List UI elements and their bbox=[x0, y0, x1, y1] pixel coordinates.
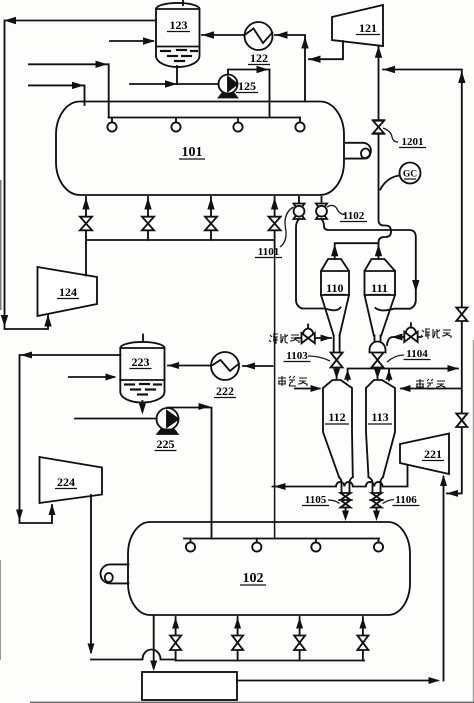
label underlines bbox=[55, 32, 444, 586]
cyclone 111 dipleg with crossover hump and valve 1104 bbox=[375, 336, 381, 342]
tank 223 bbox=[120, 342, 164, 403]
text labels bbox=[182, 145, 264, 586]
arrow: line C corner bbox=[96, 61, 108, 68]
pump 125 bbox=[219, 75, 238, 94]
wire: feed line C into vessel 101 top bbox=[29, 64, 109, 117]
tank 123 top stub bbox=[182, 1, 184, 6]
wire: transport gas line into 112 bbox=[295, 388, 320, 390]
leader 1106 bbox=[383, 500, 395, 504]
wire: exchanger 222 to tank 223 bbox=[168, 365, 211, 367]
jing-hua-qi left bbox=[269, 334, 299, 344]
arrow: right line into riser junction bbox=[447, 490, 459, 497]
wire: compressor 224 discharge down to bottom header bbox=[90, 495, 92, 652]
arrow: drain valve 2 up into 101 bbox=[144, 198, 151, 210]
svg-text:113: 113 bbox=[371, 410, 388, 424]
arrow: below valve 1106 into 102 bbox=[373, 511, 380, 522]
analyzer GC circle bbox=[400, 163, 421, 184]
vessel 101 bbox=[56, 102, 344, 196]
vessel 113 bbox=[366, 380, 395, 477]
arrow: below valve 1103 into 112 bbox=[333, 369, 340, 380]
svg-text:112: 112 bbox=[328, 410, 345, 424]
wire: riser from vessel 101 top to exchanger 122 bbox=[275, 35, 305, 102]
compressor 224 bbox=[40, 457, 103, 503]
arrow: 102 drain into box bbox=[150, 661, 157, 672]
arrow: into 122 right side bbox=[276, 31, 288, 38]
turbine 121 bbox=[332, 5, 383, 46]
arrow: box line into riser bbox=[429, 677, 441, 684]
arrow: top line pointing left bbox=[4, 17, 16, 24]
svg-text:1103: 1103 bbox=[286, 350, 308, 362]
svg-text:1101: 1101 bbox=[258, 246, 279, 258]
wire: right-side line from turbine feed down to compressor 221 junction bbox=[383, 70, 462, 494]
vessel 102 spray nozzle 3 bbox=[315, 539, 317, 543]
wire: feed arrow into tank 123 left bbox=[110, 40, 153, 42]
arrow: 224 discharge down bbox=[88, 644, 95, 655]
wire: solids return header under 112/113 into compressor 221 bbox=[273, 466, 408, 487]
cyclone 111 bbox=[365, 259, 396, 295]
vessel 102 left side nozzle bbox=[101, 564, 129, 583]
svg-text:101: 101 bbox=[182, 145, 203, 160]
vessel 102 bottom valve 3 bbox=[299, 617, 301, 661]
chinese labels (hand-drawn glyphs) bbox=[269, 329, 451, 389]
arrow: 223 top loop pointing left bbox=[21, 352, 33, 359]
vessel 101 spray nozzle 3 bbox=[237, 118, 239, 123]
vessel 101 right side nozzle bbox=[346, 143, 371, 159]
vessel 101 spray nozzle 2 bbox=[175, 118, 177, 123]
tank 223 outlet pipe bbox=[141, 401, 143, 411]
valve 1105 (double bowtie) bbox=[341, 493, 351, 500]
valve 1103 bbox=[331, 353, 343, 368]
vessel 101 spray nozzle 1 bbox=[111, 118, 113, 123]
arrow: riser top pointing up bbox=[301, 37, 308, 49]
arrow: 1102 line down at right bbox=[412, 280, 419, 292]
arrow: 112 gas riser up bbox=[344, 369, 351, 380]
vessel 112 bbox=[323, 380, 353, 477]
heat exchanger 222 bbox=[211, 352, 239, 380]
arrow: 102 bottom valve 4 up bbox=[359, 618, 366, 629]
pump 225 bbox=[157, 408, 179, 430]
valve 1106 (double bowtie) bbox=[372, 493, 382, 500]
heat exchanger 122 bbox=[245, 22, 273, 50]
wire: transport gas line into 113 bbox=[401, 388, 461, 390]
svg-text:1105: 1105 bbox=[305, 494, 327, 506]
wire: pump 125 suction line bbox=[130, 83, 219, 85]
svg-text:222: 222 bbox=[216, 384, 234, 398]
leader 1105 bbox=[328, 500, 340, 504]
arrow: up into compressor 224 bbox=[49, 504, 56, 516]
arrow: into 223 left inlet bbox=[106, 374, 117, 381]
arrow: cyclone 111 riser up bbox=[375, 244, 382, 256]
cyclone 110 bbox=[321, 259, 349, 295]
wire: exchanger 122 outlet into tank 123 bbox=[202, 34, 245, 36]
tank 123 bbox=[156, 3, 200, 67]
vessel 102 spray nozzle 2 bbox=[256, 539, 258, 543]
svg-text:224: 224 bbox=[57, 475, 75, 489]
arrow: 113 gas riser up bbox=[386, 369, 393, 380]
arrow: 102 bottom valve 3 up bbox=[296, 618, 303, 629]
arrow: cyclone 110 riser up bbox=[331, 244, 338, 256]
svg-text:124: 124 bbox=[59, 285, 77, 299]
vessel 101 spray nozzle 4 bbox=[299, 118, 301, 123]
vessel 101 bottom drain valve 4 (on long downcomer) bbox=[274, 197, 276, 240]
shu-song-qi left bbox=[278, 376, 307, 386]
arrow: purge gas right into dipleg bbox=[392, 334, 403, 341]
shu-song-qi right bbox=[416, 379, 445, 389]
compressor 124 bbox=[38, 267, 98, 316]
arrow: below valve 1105 into 102 bbox=[342, 511, 349, 522]
svg-text:1104: 1104 bbox=[406, 348, 428, 360]
arrow: gas header into right line bbox=[448, 365, 460, 372]
arrow: drain valve 4 up into 101 bbox=[271, 198, 278, 210]
svg-text:223: 223 bbox=[132, 355, 150, 369]
arrow: into 223 from 222 bbox=[168, 362, 180, 369]
valve 1104 bbox=[372, 353, 384, 368]
leader 1103 bbox=[308, 356, 330, 361]
svg-text:125: 125 bbox=[238, 79, 256, 93]
wire: bottom blowdown header under vessel 102 bbox=[176, 660, 364, 662]
wire: cyclone outlet header with risers bbox=[335, 243, 379, 259]
arrow: turbine feed up into 121 bbox=[375, 46, 382, 58]
svg-text:102: 102 bbox=[243, 571, 264, 586]
arrow: into 123 left bbox=[143, 37, 155, 44]
scan edge artifacts bbox=[1, 180, 474, 702]
wire: tank 223 inlet line bbox=[69, 376, 114, 378]
vessel 101 bottom drain valve 3 bbox=[210, 197, 212, 240]
bottom box bbox=[142, 672, 237, 700]
wire: turbine 121 exhaust to riser bbox=[309, 41, 343, 59]
vessel 102 internal spray header bbox=[184, 538, 379, 540]
leader curves bbox=[280, 128, 404, 504]
tank 123 liquid dashes bbox=[161, 50, 197, 61]
svg-text:110: 110 bbox=[326, 281, 343, 295]
arrow: right line up bbox=[458, 71, 465, 83]
arrow: 102 bottom valve 2 up bbox=[234, 618, 241, 629]
vessel 101 bottom drain valve 1 bbox=[85, 197, 87, 240]
vessel 113 outlet pipe (double line) bbox=[369, 477, 384, 493]
wire: left ball valve line feeding cyclone 110 bbox=[296, 219, 341, 310]
vessel 102 bbox=[128, 522, 410, 615]
compressor 221 bbox=[400, 434, 449, 475]
arrow: into 222 from right bbox=[244, 363, 256, 370]
wire: right ball valve line to cyclone 111 (over the top, down right side) bbox=[322, 219, 416, 310]
arrow: drain valve 3 up into 101 bbox=[207, 198, 214, 210]
vessel 102 spray nozzle 1 bbox=[190, 539, 192, 543]
vessel 102 drain to bottom box bbox=[153, 616, 155, 669]
arrow: up into compressor 124 bbox=[44, 315, 51, 327]
wire: pump 225 discharge into vessel 102 bbox=[168, 408, 212, 539]
svg-text:121: 121 bbox=[359, 21, 377, 35]
arrow: 223 loop down bbox=[16, 510, 23, 522]
arrow: drain valve 1 up into 101 bbox=[82, 198, 89, 210]
arrow: riser up into 221 bbox=[440, 475, 447, 487]
cyclone 110 dipleg to valve 1103 bbox=[334, 336, 340, 353]
wire: bottom box to riser into compressor 221 bbox=[237, 477, 444, 681]
wire: turbine 121 feed line with crossover jog bbox=[378, 46, 380, 121]
wire: drain header under vessel 101, drop into compressor 124 bbox=[86, 240, 275, 276]
wire: top line from tank 123 to far left, down left edge into compressor 124 bbox=[5, 21, 157, 330]
svg-text:225: 225 bbox=[157, 437, 175, 451]
arrow: transport gas into 112 bbox=[311, 385, 322, 392]
arrow: pump 125 discharge corner bbox=[257, 66, 269, 73]
wire: gas header from vessels 112/113 to right line bbox=[348, 369, 458, 381]
vessel 102 spray nozzle 4 bbox=[378, 539, 380, 543]
arrow: pump 125 suction bbox=[165, 80, 177, 87]
svg-text:221: 221 bbox=[424, 447, 442, 461]
vessel 101 internal spray header bbox=[109, 117, 300, 119]
purge valve (net-hua-qi) left with dome bbox=[296, 337, 331, 339]
vessel 102 bottom valve 1 bbox=[175, 617, 177, 661]
valve on right line (upper) bbox=[456, 308, 467, 322]
svg-text:123: 123 bbox=[170, 18, 188, 32]
valve on right line (lower) bbox=[456, 414, 467, 428]
purge valve (net-hua-qi) right with dome bbox=[387, 337, 421, 345]
arrow: solids header pointing left into downcomer bbox=[274, 483, 286, 490]
arrow: into 123 from 122 bbox=[202, 31, 214, 38]
arrow: line E corner bbox=[72, 82, 84, 89]
svg-text:1106: 1106 bbox=[395, 494, 417, 506]
ball valve 1101 (left) under vessel 101 bbox=[298, 197, 300, 204]
wire: heat exchanger 222 feed from downcomer bbox=[243, 365, 273, 367]
ball valve 1102 (right) under vessel 101 bbox=[321, 197, 323, 204]
wire: feed line E into vessel 101 top bbox=[29, 85, 85, 105]
vessel 102 bottom valve 2 bbox=[237, 617, 239, 661]
leader 1102 bbox=[327, 205, 345, 214]
svg-text:GC: GC bbox=[403, 170, 417, 180]
arrow: left edge line down bbox=[1, 315, 8, 327]
arrow: pump 225 discharge bbox=[199, 403, 211, 410]
arrow: below valve 1104 into 113 bbox=[374, 369, 381, 380]
svg-text:122: 122 bbox=[250, 51, 268, 65]
arrow: purge gas left into dipleg bbox=[321, 335, 332, 342]
tank 123 bottom outlet pipe bbox=[176, 66, 178, 84]
leader 1104 bbox=[387, 355, 404, 362]
jing-hua-qi right bbox=[421, 329, 451, 339]
valve 1201 bbox=[373, 120, 385, 134]
svg-text:1201: 1201 bbox=[402, 136, 424, 148]
wire: long downcomer from drain header to vessel 102 bbox=[274, 240, 276, 248]
leader 1201 bbox=[383, 128, 398, 142]
wire: pump 225 suction line bbox=[75, 418, 157, 420]
arrow: right line top into turbine feed bbox=[383, 66, 395, 73]
wire: tank 223 top loop to compressor 224 bbox=[20, 355, 121, 523]
svg-text:111: 111 bbox=[371, 281, 388, 295]
arrow: transport gas into 113 bbox=[400, 385, 411, 392]
tank 223 liquid dashes bbox=[125, 384, 161, 395]
arrow: 223 outlet down bbox=[139, 404, 146, 415]
analyzer GC connection curve bbox=[380, 176, 399, 190]
leader 1101 bbox=[280, 207, 294, 247]
wire: pump 125 discharge into vessel 101 bbox=[228, 70, 270, 118]
arrow: 102 bottom valve 1 up bbox=[172, 618, 179, 629]
vessel 112 outlet pipe (double line) bbox=[339, 477, 353, 493]
svg-text:1102: 1102 bbox=[343, 210, 365, 222]
vessel 101 bottom drain valve 2 bbox=[147, 197, 149, 240]
tank 223 top stub bbox=[142, 335, 144, 343]
vessel 102 bottom valve 4 bbox=[362, 617, 364, 661]
arrow: turbine exhaust into riser bbox=[309, 56, 321, 63]
